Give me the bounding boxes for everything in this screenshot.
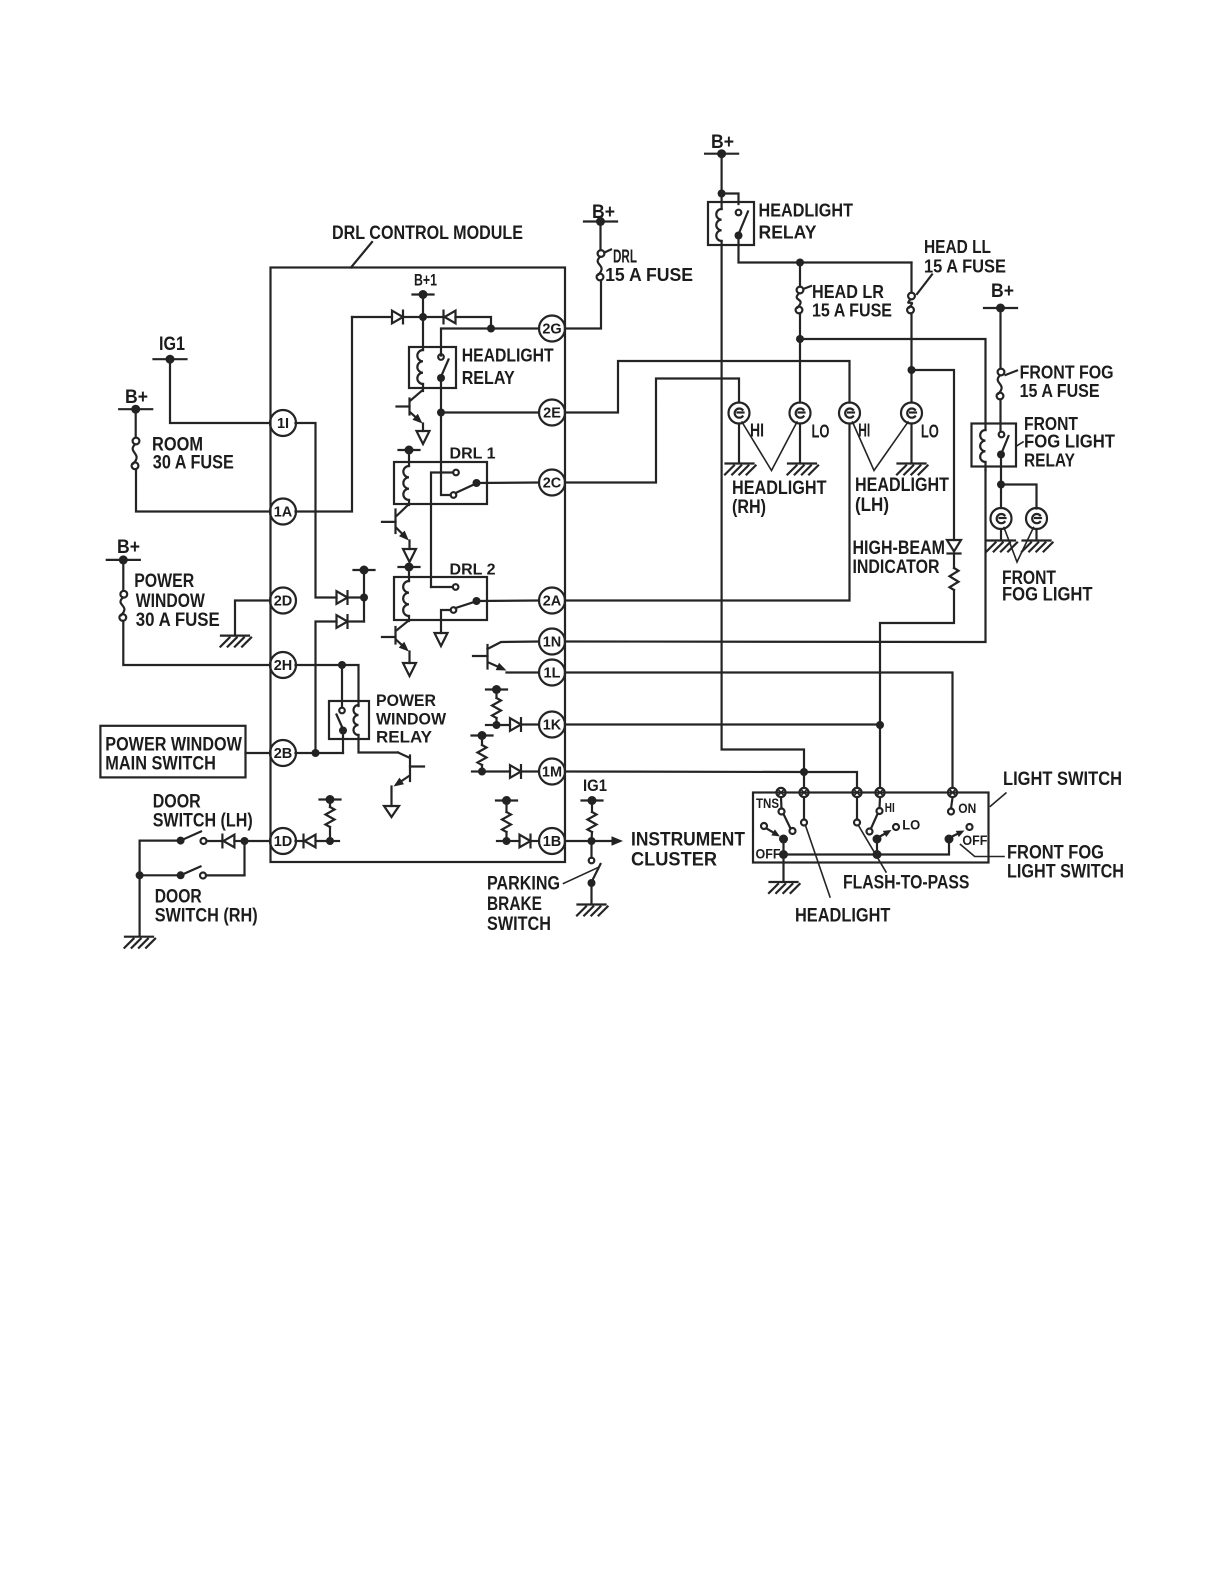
wire branch to right fog lamp (1001, 485, 1037, 509)
fuse FRONT FOG 15A (997, 369, 1005, 400)
wire B+1 to relay coil (422, 317, 424, 350)
svg-text:1I: 1I (277, 416, 289, 432)
svg-text:HEAD LL: HEAD LL (924, 237, 991, 257)
junction 2G branch (487, 325, 495, 333)
lamp headlight HI (LH) (839, 403, 860, 424)
wire DRL2 pivot to pin 2A (477, 599, 540, 602)
leader HEAD LL (917, 275, 932, 295)
node B+ tick (DRL fuse) (584, 217, 617, 226)
svg-text:15 A FUSE: 15 A FUSE (812, 301, 892, 321)
wire coil to transistor (422, 384, 424, 391)
fuse HEAD LL 15A (907, 293, 915, 314)
leader headlight LH labels (853, 422, 909, 471)
relay DRL1 box (394, 462, 487, 504)
junction 1B node (503, 837, 511, 845)
wire junction to brake switch (590, 841, 592, 858)
float triangle Q3 (403, 663, 416, 676)
node B+ tick R2 (486, 685, 507, 694)
svg-text:WINDOW: WINDOW (136, 591, 205, 612)
svg-text:DRL: DRL (613, 247, 637, 267)
wire tick to R2 (495, 690, 497, 699)
leader light switch label (990, 793, 1006, 806)
contact fog OFF (967, 824, 973, 830)
junction 1K node (493, 721, 501, 729)
stub 1D node (330, 840, 339, 842)
svg-text:2E: 2E (543, 406, 561, 422)
transistor Q4 emitter (394, 776, 410, 787)
wire tap to LR fuse (799, 263, 801, 287)
float triangle Q4 (384, 806, 399, 817)
node B+ tick (power window fuse) (107, 555, 140, 564)
wire HI terminal internal (878, 798, 881, 808)
wire junction to relay switch (441, 329, 491, 356)
svg-text:OFF: OFF (962, 832, 987, 848)
transistor Q3 emitter (397, 640, 409, 652)
wire 1D node to resistor (329, 827, 331, 841)
wire left fog lamp to ground (1000, 529, 1002, 539)
svg-text:2C: 2C (543, 476, 562, 492)
relay DRL2 box (394, 577, 487, 620)
svg-text:LO: LO (812, 422, 830, 442)
pin 1D (270, 828, 296, 854)
wire pin 2A to HI LH lamp bottom (565, 424, 850, 601)
DRL1 contact upper (453, 470, 459, 476)
svg-text:RELAY: RELAY (1024, 451, 1075, 471)
junction fog lamp branch (997, 481, 1005, 489)
svg-text:BRAKE: BRAKE (487, 894, 542, 915)
leader headlight RH labels (742, 422, 797, 471)
svg-text:1A: 1A (274, 505, 293, 521)
leader front fog labels (1004, 528, 1034, 563)
wire Q2 emitter down (408, 541, 410, 550)
svg-text:POWER: POWER (376, 691, 436, 710)
fog relay pivot (997, 451, 1005, 459)
arrow to instrument cluster (612, 836, 624, 845)
ground LO LH lamp (897, 464, 928, 475)
high-beam indicator symbol (947, 540, 961, 554)
wire right fog lamp to ground (1035, 529, 1037, 539)
wire bus to RH pivot (140, 874, 181, 876)
junction 1B parking brake (588, 837, 596, 845)
svg-text:CLUSTER: CLUSTER (631, 850, 717, 871)
wire tap to indicator (912, 370, 955, 540)
wire B+ down (720, 154, 722, 194)
pin 1N (539, 629, 565, 655)
svg-text:LIGHT SWITCH: LIGHT SWITCH (1003, 769, 1122, 790)
svg-text:IG1: IG1 (583, 776, 607, 795)
wire 1M node to diode (482, 770, 510, 772)
node B+ tick (fog fuse) (984, 304, 1017, 313)
wire D8 to pin 1B (531, 840, 540, 842)
parking brake arm (592, 864, 601, 881)
svg-text:RELAY: RELAY (376, 728, 433, 747)
wire PW pivot to 2B line (342, 731, 344, 754)
dimmer pivot (873, 835, 882, 844)
wire internal ground bus (784, 839, 950, 855)
wire relay coil to light switch (722, 241, 804, 772)
float triangle DRL2 (435, 633, 448, 646)
transistor Q3 collector (397, 621, 408, 630)
wire pin 1K to dimmer (565, 723, 880, 725)
svg-text:15 A FUSE: 15 A FUSE (924, 257, 1006, 277)
transistor Q1 bar (408, 399, 410, 415)
wire Q4 emitter down (390, 787, 392, 807)
wire Q5 collector to pin 1N (488, 642, 540, 650)
wire D2 to 2G branch (456, 317, 492, 329)
transistor Q5 bar (486, 645, 488, 669)
wire pin 2B line (296, 752, 344, 754)
wire tick to R4 (505, 801, 507, 813)
svg-text:HEADLIGHT: HEADLIGHT (759, 201, 854, 221)
wire LR fuse to junction (799, 313, 801, 339)
transistor Q4 collector (398, 753, 409, 758)
ground front fog left (987, 541, 1018, 552)
junction diode pair (360, 594, 368, 602)
headlight relay contact (exterior) (736, 210, 742, 216)
svg-text:POWER WINDOW: POWER WINDOW (105, 735, 242, 756)
terminal TNS-1 (776, 788, 785, 797)
svg-text:FOG LIGHT: FOG LIGHT (1002, 584, 1093, 605)
transistor Q2 bar (394, 510, 396, 534)
wire door switch LH feed (140, 841, 181, 876)
wire relay pivot to 2E node (440, 378, 442, 413)
wire R3 to 1M node (481, 765, 483, 772)
door switch LH arm (181, 832, 201, 841)
wire junction to relay coil (720, 194, 722, 210)
node B+ tick R4 (496, 796, 517, 805)
fuse DRL 15A (597, 250, 605, 280)
PW relay coil (354, 705, 359, 735)
pin 2B (270, 740, 296, 766)
svg-text:30 A FUSE: 30 A FUSE (153, 453, 234, 474)
svg-text:HEADLIGHT: HEADLIGHT (795, 906, 891, 927)
wire D7 to pin 1M (521, 770, 539, 772)
wire 2B branch to diode D4 (316, 622, 337, 754)
contact headlight leader (801, 820, 807, 826)
wire LH contact to diode (207, 840, 223, 842)
door switch RH pivot (177, 871, 185, 879)
wire IG1 to resistor (591, 801, 593, 813)
wire fog fuse to relay switch (999, 399, 1001, 431)
svg-text:30 A FUSE: 30 A FUSE (136, 610, 220, 631)
wire 1A riser top (352, 316, 392, 318)
headlight switch pivot (779, 835, 788, 844)
headlight relay arm (module) (442, 360, 449, 376)
node B+ tick diode pair (354, 566, 375, 575)
DRL control module box (271, 268, 566, 863)
wire Q3 emitter down (408, 652, 410, 664)
leader to module box (351, 242, 372, 268)
ground at pin 2D (221, 636, 252, 647)
wire LO LH lamp to ground (910, 424, 912, 463)
svg-text:2D: 2D (274, 594, 293, 610)
svg-text:ON: ON (958, 800, 976, 816)
transistor Q3 bar (394, 627, 396, 644)
svg-text:B+1: B+1 (414, 272, 437, 290)
resistor R3 (1M) (478, 745, 487, 765)
node B+ tick (room fuse) (119, 405, 152, 414)
ground HI RH lamp (725, 464, 756, 475)
junction 1D resistor node (326, 837, 334, 845)
headlight relay coil (exterior) (716, 209, 721, 241)
svg-text:1L: 1L (544, 666, 561, 682)
svg-text:HEADLIGHT: HEADLIGHT (855, 475, 949, 496)
node B+ tick R3 (472, 731, 493, 740)
svg-text:15 A FUSE: 15 A FUSE (1020, 381, 1100, 401)
wire relay output bus (739, 236, 912, 263)
wire pin 1D diode (296, 840, 304, 842)
wire pin 2E to HI LH lamp (565, 361, 850, 413)
lamp headlight LO (LH) (901, 403, 922, 424)
diode D2 (from 2G) (444, 311, 456, 324)
fuse ROOM 30A (132, 438, 140, 470)
svg-text:2G: 2G (542, 322, 561, 338)
node B+ tick DRL1 coil (399, 446, 420, 455)
svg-text:FOG LIGHT: FOG LIGHT (1024, 432, 1115, 452)
svg-text:PARKING: PARKING (487, 874, 560, 895)
wire B+ to room fuse (135, 409, 137, 437)
wire junction to pin 2G (491, 327, 539, 329)
pin 2E (539, 400, 565, 426)
resistor R5 (IG1) (588, 812, 597, 832)
svg-text:IG1: IG1 (159, 334, 185, 355)
junction high-beam indicator tap (908, 366, 916, 374)
svg-text:HEADLIGHT: HEADLIGHT (462, 346, 554, 366)
node B+ tick DRL2 coil (399, 563, 420, 572)
wire 1B node to diode (507, 840, 520, 842)
transistor Q3 base (382, 636, 396, 638)
svg-text:RELAY: RELAY (462, 368, 515, 388)
wire D4 to node (348, 620, 365, 622)
DRL2 pivot (473, 597, 481, 605)
junction 1M relay node (800, 768, 808, 776)
svg-text:HI: HI (885, 800, 895, 815)
fog switch pivot (945, 835, 954, 844)
svg-text:FLASH-TO-PASS: FLASH-TO-PASS (843, 872, 969, 893)
svg-text:MAIN SWITCH: MAIN SWITCH (105, 753, 216, 774)
wire junction to LO RH lamp (799, 339, 801, 403)
transistor Q5 emitter (489, 663, 507, 671)
terminal ON (948, 788, 957, 797)
headlight relay box (module) (409, 347, 456, 388)
transistor Q1 emitter (411, 413, 423, 424)
lamp front fog (right) (1026, 508, 1047, 529)
wire indicator to resistor (953, 555, 955, 569)
wire PW coil to Q4 (359, 735, 399, 753)
wire pin 1B to cluster (565, 840, 612, 842)
headlight relay arm (exterior) (739, 212, 748, 234)
node B+ tick (headlight relay) (705, 149, 738, 158)
fog switch wiper (951, 831, 965, 838)
wire B+ to power window fuse (122, 560, 124, 591)
wire tick to DRL2 coil (408, 567, 410, 581)
ground door switches (125, 937, 156, 948)
junction B+1 diode node (419, 313, 427, 321)
pin 2G (539, 316, 565, 342)
wire node to second TNS terminal (804, 772, 857, 788)
wire TNS-1 internal (780, 798, 783, 809)
front fog relay coil (980, 430, 985, 462)
junction 1M node (478, 768, 486, 776)
wire IG1 to pin 1I (170, 359, 270, 423)
wire D6 to pin 1K (521, 723, 539, 725)
wire fog coil to 1N riser (984, 462, 986, 470)
svg-text:SWITCH: SWITCH (487, 914, 551, 935)
wire pin 1I riser (296, 423, 337, 598)
fuse POWER WINDOW 30A (119, 591, 127, 621)
wire Q1 emitter down (422, 424, 424, 432)
wire pin 2D to ground (235, 601, 270, 636)
DRL1 arm (456, 485, 475, 494)
svg-text:POWER: POWER (134, 571, 194, 592)
wire Q5 emitter to pin 1L (507, 671, 540, 673)
wire pivot to OFF node (782, 839, 784, 855)
svg-text:(RH): (RH) (732, 497, 766, 518)
svg-text:INSTRUMENT: INSTRUMENT (631, 830, 745, 851)
headlight switch wiper (767, 829, 781, 837)
float triangle Q2 (403, 549, 416, 562)
contact fog ON (948, 809, 954, 815)
node B+ tick R1 (320, 795, 341, 804)
fuse HEAD LR 15A (796, 287, 804, 314)
wire B+1 down (422, 295, 424, 318)
svg-text:2B: 2B (274, 746, 293, 762)
wire 2H tap to PW contact (341, 665, 343, 708)
node IG1 tick (154, 355, 187, 364)
wire D3 to node (348, 596, 365, 598)
stub 1B node (497, 840, 507, 842)
lamp front fog (left) (991, 508, 1012, 529)
wire 2E node down to DRL1 switch (441, 413, 451, 496)
light switch box (753, 793, 989, 863)
headlight relay pivot (exterior) (735, 232, 743, 240)
svg-text:FRONT FOG: FRONT FOG (1007, 843, 1104, 864)
svg-text:2A: 2A (543, 594, 562, 610)
resistor R2 (1K) (492, 698, 501, 718)
diode D3 (from 1I) (337, 591, 348, 604)
junction door switches (241, 837, 249, 845)
contact TNS A (779, 809, 785, 815)
DRL2 coil (403, 581, 409, 616)
svg-text:SWITCH (RH): SWITCH (RH) (155, 905, 258, 926)
ground light switch (769, 882, 800, 893)
pin 2A (539, 588, 565, 614)
transistor Q1 base (397, 405, 410, 407)
svg-text:LO: LO (921, 422, 939, 442)
svg-text:HIGH-BEAM: HIGH-BEAM (853, 538, 946, 559)
wire node to pin 2E (441, 411, 539, 413)
DRL1 contact lower (451, 492, 457, 498)
wire low-beam bus to fog relay coil (800, 339, 986, 430)
pin 1K (539, 712, 565, 738)
svg-text:DRL CONTROL MODULE: DRL CONTROL MODULE (332, 223, 523, 244)
fog relay arm (1002, 436, 1009, 452)
parking brake contact (589, 858, 595, 864)
wire ON terminal internal (951, 798, 953, 809)
wire DRL2 upper contact (431, 586, 453, 588)
headlight relay pivot (module) (437, 374, 445, 382)
diode D8 (1B) (520, 835, 531, 848)
wire RH contact right (206, 874, 245, 876)
wire flash terminal internal (856, 798, 858, 820)
svg-text:2H: 2H (274, 658, 293, 674)
diode D4 (from 2B) (337, 615, 348, 628)
wire junction to relay switch (722, 194, 739, 205)
svg-text:TNS: TNS (756, 795, 779, 811)
svg-text:15 A FUSE: 15 A FUSE (605, 265, 693, 285)
pin 1M (539, 759, 565, 785)
wire pin 1N to fog relay coil (565, 470, 986, 642)
headlight relay contact (module) (438, 354, 444, 360)
junction low-beam bus (796, 335, 804, 343)
wire node to TNS terminal (803, 772, 805, 788)
junction relay feed (718, 190, 726, 198)
ground front fog right (1022, 541, 1053, 552)
wire TNS-2 internal (803, 798, 805, 820)
DRL2 arm (456, 602, 475, 608)
wire pin 1A riser (296, 317, 353, 512)
svg-text:HEAD LR: HEAD LR (812, 282, 884, 302)
resistor high-beam indicator (950, 568, 959, 590)
wire R5 to junction (590, 832, 593, 841)
wire pin 2C to HI RH lamp (565, 379, 739, 483)
wire relay bus to LL fuse (910, 263, 912, 293)
float triangle Q1 (417, 431, 430, 444)
junction door LH pivot (177, 837, 185, 845)
lamp headlight LO (RH) (790, 403, 811, 424)
wire door bus to ground (139, 875, 141, 935)
wire D5 to node (316, 840, 331, 842)
junction 2E node (437, 409, 445, 417)
ground LO RH lamp (788, 464, 819, 475)
dimmer wiper (879, 830, 892, 837)
pin 2C (539, 470, 565, 496)
pin 1I (270, 410, 296, 436)
wire tick to diode node (363, 570, 365, 622)
diode D1 (from 1A) (392, 311, 403, 324)
transistor Q5 base (473, 655, 488, 657)
svg-text:HEADLIGHT: HEADLIGHT (732, 478, 827, 499)
door switch LH contact (201, 838, 207, 844)
svg-text:DRL 2: DRL 2 (450, 562, 496, 579)
wire resistor to tick (329, 800, 331, 808)
terminal TNS-2 (799, 788, 808, 797)
junction OFF node (779, 850, 788, 859)
wire indicator to light switch HI (880, 590, 954, 788)
wire HI RH lamp to ground (738, 424, 740, 463)
wire main switch to pin 2B (246, 752, 271, 754)
terminal HI (875, 788, 884, 797)
wire B+ to DRL fuse (599, 222, 601, 251)
contact dimmer mid (867, 829, 873, 835)
pin 2H (270, 652, 296, 678)
leader front fog switch label (961, 845, 1005, 857)
node B+1 tick (413, 290, 434, 299)
wire tick to DRL1 coil (408, 450, 410, 466)
junction 1K to dimmer (876, 721, 884, 729)
transistor Q4 base (410, 765, 424, 767)
leader fog relay label (1017, 442, 1024, 446)
PW relay contact (339, 708, 345, 714)
stub 1M node (472, 770, 482, 772)
wire DRL1 pivot to pin 2C (477, 481, 540, 484)
door switch RH arm (181, 867, 201, 876)
wire DRL1 upper contact to DRL2 (431, 473, 453, 588)
transistor Q2 collector (397, 505, 408, 516)
PW relay pivot (339, 727, 347, 735)
wire tick to R3 (481, 736, 483, 746)
wire DRL2 lower contact float (441, 610, 451, 633)
